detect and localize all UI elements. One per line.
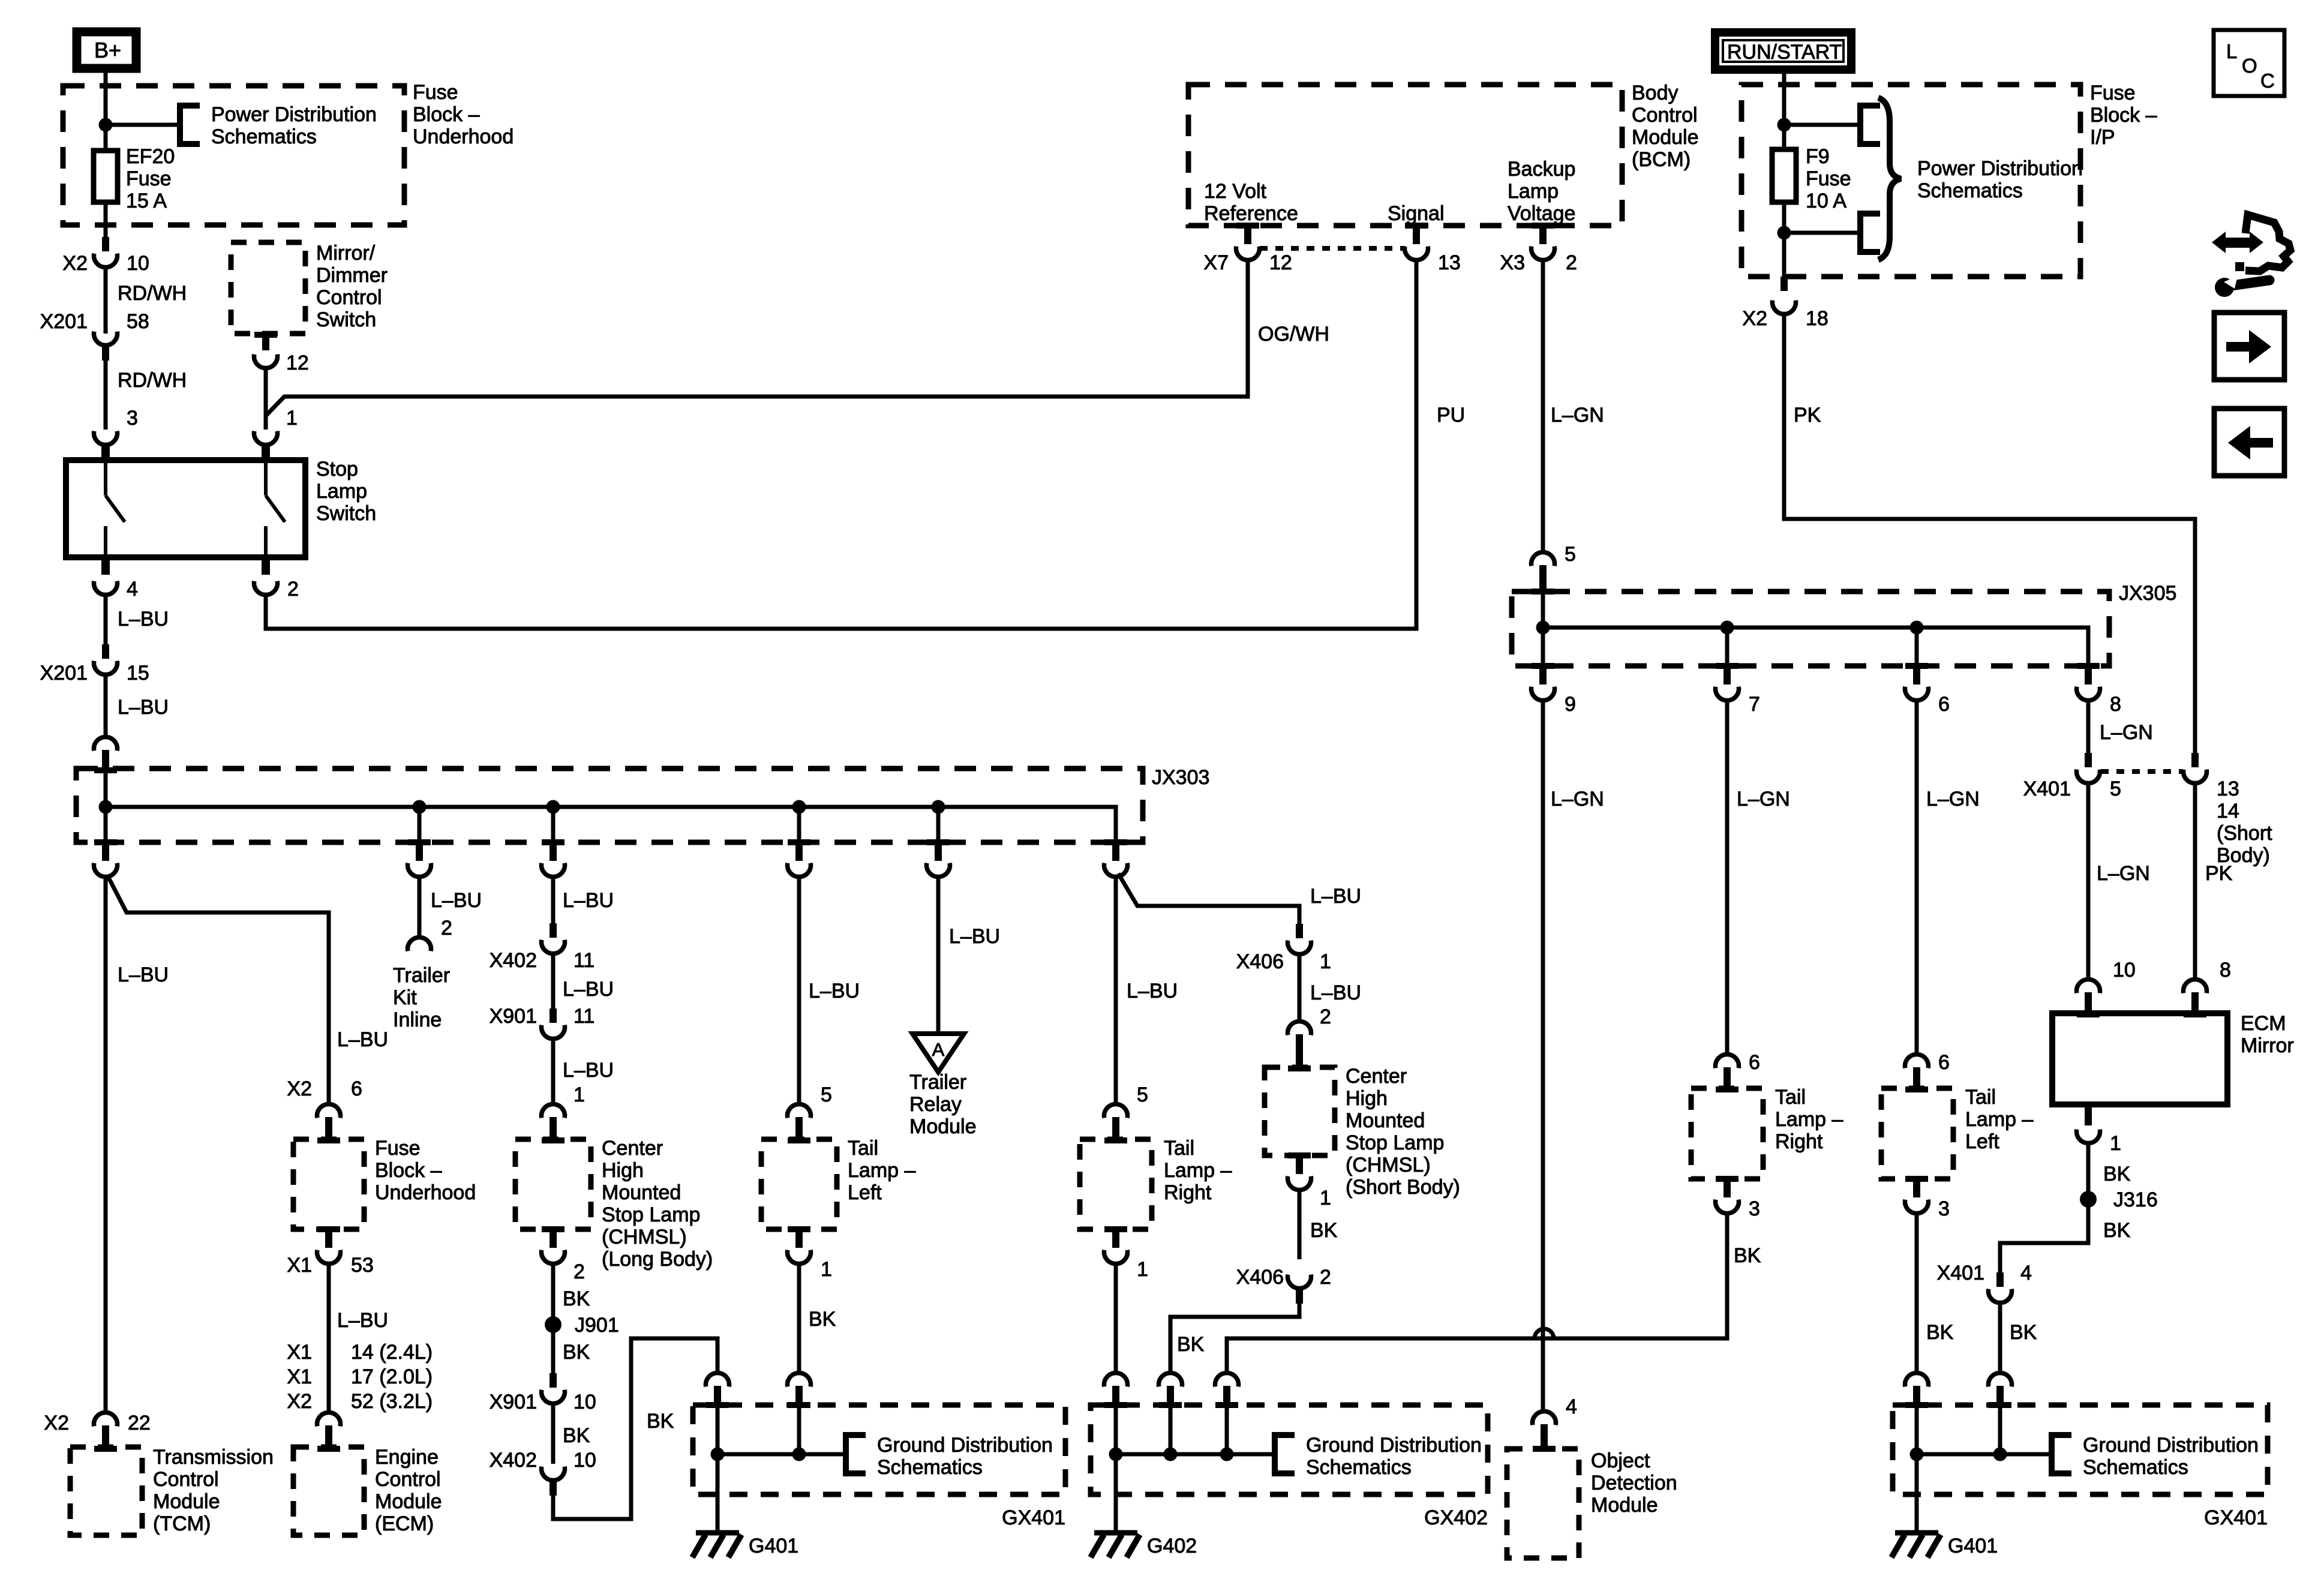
- svg-text:Ground Distribution: Ground Distribution: [2083, 1434, 2259, 1457]
- svg-text:JX303: JX303: [1152, 766, 1209, 789]
- svg-text:53: 53: [351, 1254, 374, 1277]
- connector pin 1 at ECM mirror bottom: [2085, 1104, 2092, 1125]
- connector pin 1 at tail lamp right: [1104, 1226, 1127, 1232]
- svg-text:Fuse: Fuse: [413, 81, 458, 104]
- svg-text:L–BU: L–BU: [949, 925, 1000, 948]
- svg-text:1: 1: [574, 1083, 585, 1106]
- GX401 right entry connector (tail lamp left): [1905, 1373, 1929, 1386]
- connector X7 dashed link: [1260, 246, 1405, 251]
- junction block JX303 dashed box: [76, 769, 1143, 842]
- stop lamp switch pin 2 stub: [262, 557, 270, 575]
- svg-text:RUN/START: RUN/START: [1727, 41, 1842, 64]
- svg-text:L–BU: L–BU: [118, 696, 169, 719]
- svg-text:Detection: Detection: [1591, 1472, 1677, 1494]
- connector pin 1 at CHMSL short body: [1288, 1152, 1311, 1158]
- wire L-BU to tail lamp left pin 5: [797, 876, 801, 1103]
- svg-text:1: 1: [2110, 1132, 2121, 1155]
- svg-text:L–GN: L–GN: [2100, 721, 2153, 744]
- fuse F9 10A: [1772, 149, 1796, 202]
- svg-text:14 (2.4L): 14 (2.4L): [351, 1341, 433, 1364]
- LOC legend box: [2214, 30, 2284, 96]
- wire L-BU to CHMSL long body pin 1: [551, 1038, 556, 1103]
- wire RUN/START to fuse F9: [1782, 73, 1786, 149]
- node on JX303 bus at tail lamp left drop: [792, 800, 806, 814]
- svg-text:BK: BK: [563, 1424, 590, 1447]
- svg-text:L–GN: L–GN: [1926, 788, 1980, 810]
- connector pin 1 at tail lamp left: [788, 1226, 810, 1232]
- wire RD/WH to stop lamp switch pin 3: [104, 360, 108, 430]
- svg-text:17 (2.0L): 17 (2.0L): [351, 1365, 433, 1388]
- svg-text:BK: BK: [1177, 1333, 1205, 1356]
- svg-text:5: 5: [1565, 543, 1576, 566]
- svg-text:(CHMSL): (CHMSL): [1346, 1154, 1431, 1176]
- transmission control module (TCM) dashed box: [70, 1447, 142, 1535]
- svg-text:GX401: GX401: [2204, 1506, 2268, 1529]
- svg-text:52 (3.2L): 52 (3.2L): [351, 1390, 433, 1413]
- wire L-BU to trailer relay module: [936, 876, 941, 1034]
- svg-text:Backup: Backup: [1508, 158, 1575, 181]
- JX305 internal bus wire: [1543, 593, 2088, 666]
- svg-text:13: 13: [2217, 778, 2239, 800]
- svg-text:2: 2: [574, 1260, 585, 1283]
- JX303 internal bus wire: [106, 770, 1116, 842]
- junction block JX303 entry connector: [94, 737, 118, 751]
- svg-text:Left: Left: [1965, 1130, 1999, 1153]
- wire L-GN from JX305 pin 8 to X401: [2086, 700, 2091, 753]
- svg-text:High: High: [602, 1159, 644, 1182]
- svg-text:L–BU: L–BU: [337, 1028, 388, 1051]
- stop lamp switch left contact blade: [106, 463, 125, 557]
- svg-text:9: 9: [1565, 693, 1576, 716]
- svg-text:G401: G401: [749, 1535, 798, 1557]
- svg-text:C: C: [2260, 70, 2275, 92]
- connector pin 2 at CHMSL long body: [542, 1226, 565, 1232]
- svg-text:PK: PK: [2205, 862, 2233, 885]
- connector X402 pin 11: [550, 923, 557, 938]
- svg-text:Module: Module: [1632, 126, 1699, 149]
- svg-text:Mounted: Mounted: [602, 1181, 681, 1204]
- svg-text:3: 3: [127, 407, 138, 430]
- svg-text:5: 5: [2110, 778, 2121, 800]
- wire RD/WH: [104, 266, 108, 334]
- svg-text:BK: BK: [1926, 1321, 1954, 1344]
- svg-text:Stop: Stop: [316, 458, 358, 481]
- continuation symbol bottom (power distribution): [1860, 214, 1880, 252]
- svg-text:12: 12: [286, 352, 309, 374]
- svg-text:X2: X2: [62, 252, 88, 275]
- svg-text:Object: Object: [1591, 1449, 1650, 1472]
- svg-text:L–BU: L–BU: [431, 889, 482, 912]
- svg-text:Center: Center: [1346, 1065, 1407, 1088]
- svg-text:Signal: Signal: [1388, 202, 1445, 225]
- svg-text:G401: G401: [1948, 1535, 1998, 1557]
- ground G401 (left): [716, 1454, 720, 1532]
- svg-text:10: 10: [2113, 959, 2136, 981]
- svg-text:Engine: Engine: [375, 1446, 439, 1469]
- wire L-GN from X401-5 to ECM mirror pin 10: [2086, 783, 2091, 978]
- GX401 right entry connector (X401-4): [1989, 1373, 2012, 1386]
- wire L-BU to TCM (left branch): [104, 876, 108, 1412]
- svg-text:8: 8: [2110, 693, 2121, 716]
- service icon double-headed arrow: [2223, 238, 2253, 248]
- connector X2 pin 10: [102, 237, 109, 251]
- svg-text:Kit: Kit: [393, 986, 417, 1009]
- connector pin 4: [94, 581, 118, 595]
- svg-text:X3: X3: [1500, 251, 1525, 274]
- svg-text:Lamp: Lamp: [316, 480, 367, 503]
- svg-text:2: 2: [1566, 251, 1577, 274]
- svg-text:(BCM): (BCM): [1632, 148, 1691, 171]
- GX402 entry connector (CHMSL short): [1159, 1373, 1182, 1386]
- svg-text:2: 2: [441, 917, 452, 939]
- svg-text:Schematics: Schematics: [211, 125, 317, 148]
- svg-text:X7: X7: [1203, 251, 1229, 274]
- svg-text:Lamp –: Lamp –: [1164, 1159, 1232, 1182]
- svg-text:L–BU: L–BU: [1310, 981, 1361, 1004]
- svg-text:1: 1: [1320, 950, 1331, 973]
- wire L-BU to X402: [551, 876, 556, 923]
- continuation symbol ground distribution schematics (GX402): [1275, 1435, 1295, 1473]
- power symbol RUN/START: [1715, 32, 1851, 70]
- svg-text:7: 7: [1749, 693, 1760, 716]
- stop lamp switch right contact blade: [266, 463, 285, 557]
- svg-text:X406: X406: [1236, 1266, 1284, 1289]
- GX402 entry connector (right BK wire): [1215, 1373, 1239, 1386]
- svg-text:BK: BK: [2103, 1163, 2131, 1185]
- svg-text:Control: Control: [316, 286, 382, 309]
- connector pin 3 at tail lamp left (right side): [1905, 1176, 1928, 1182]
- svg-text:BK: BK: [2010, 1321, 2037, 1344]
- svg-text:X402: X402: [490, 1449, 537, 1472]
- forward arrow box: [2214, 313, 2284, 380]
- wire BK to ground distribution GX401: [553, 1338, 717, 1519]
- svg-text:8: 8: [2220, 959, 2231, 981]
- svg-text:Inline: Inline: [393, 1008, 442, 1031]
- trailer kit inline connector (pin 2): [407, 937, 431, 951]
- svg-text:Module: Module: [1591, 1494, 1658, 1517]
- wire L-BU to junction block JX303: [104, 674, 108, 736]
- tail lamp - left dashed box: [761, 1139, 837, 1229]
- svg-text:BK: BK: [809, 1308, 836, 1331]
- wire BK to X402: [551, 1403, 556, 1464]
- svg-text:L–BU: L–BU: [1310, 885, 1361, 908]
- svg-text:X901: X901: [490, 1391, 537, 1413]
- svg-text:Mirror/: Mirror/: [316, 242, 376, 265]
- wire from tail lamp right pin 1 to GX402: [1114, 1263, 1118, 1371]
- junction block JX305 dashed box: [1512, 592, 2109, 666]
- svg-text:Module: Module: [153, 1490, 220, 1513]
- node GX401 bus right: [792, 1448, 806, 1461]
- svg-text:L–BU: L–BU: [563, 1059, 614, 1082]
- GX401 entry connector (left): [706, 1373, 729, 1386]
- wire L-BU to X901: [551, 953, 556, 1008]
- svg-text:L–BU: L–BU: [809, 980, 860, 1002]
- wire L-BU branch to fuse block underhood (middle): [108, 876, 329, 1103]
- svg-text:Trailer: Trailer: [909, 1071, 966, 1094]
- svg-text:Tail: Tail: [1775, 1086, 1806, 1109]
- ground distribution GX401 (right) dashed box: [1893, 1405, 2268, 1494]
- node GX402 bus at G402: [1109, 1448, 1123, 1461]
- svg-text:X201: X201: [40, 310, 88, 333]
- svg-text:Switch: Switch: [316, 502, 376, 525]
- node on JX303 bus at trailer relay drop: [932, 800, 945, 814]
- GX401 right bus wire: [1917, 1452, 2052, 1457]
- wire L-GN from JX305 pin 9 to object detection module: [1541, 700, 1545, 1410]
- svg-text:BK: BK: [563, 1341, 590, 1364]
- svg-text:J901: J901: [575, 1314, 619, 1337]
- svg-text:O: O: [2242, 55, 2257, 77]
- connector X2 pin 18: [1780, 277, 1788, 291]
- junction node at F9 bottom: [1777, 226, 1791, 240]
- connector X201 pin 58: [94, 332, 118, 346]
- wire EF20 to connector X2-10: [104, 202, 108, 239]
- wire BK from tail lamp left to GX401: [797, 1263, 801, 1371]
- connector X401 pin 5: [2085, 753, 2092, 767]
- splice J901: [545, 1316, 562, 1333]
- connector pin 2: [254, 581, 278, 595]
- fuse block - underhood (middle) dashed box: [293, 1139, 364, 1229]
- wire L-BU to ECM: [327, 1263, 331, 1410]
- connector X401 pin 4: [1996, 1272, 2004, 1287]
- node on JX303 bus at left chain: [99, 800, 113, 814]
- svg-text:Power Distribution: Power Distribution: [211, 103, 377, 126]
- wire L-BU to CHMSL short pin 2: [1298, 954, 1302, 1020]
- svg-text:11: 11: [574, 1005, 594, 1028]
- svg-text:3: 3: [1749, 1197, 1760, 1220]
- svg-text:L: L: [2226, 40, 2237, 62]
- trailer relay module triangle A: [912, 1034, 964, 1072]
- svg-text:Trailer: Trailer: [393, 964, 450, 987]
- svg-text:12: 12: [1269, 251, 1292, 274]
- JX303 exit connector at CHMSL long: [542, 839, 565, 845]
- connector X201 pin 15: [102, 644, 109, 659]
- svg-text:L–BU: L–BU: [563, 889, 614, 912]
- svg-text:4: 4: [2020, 1262, 2032, 1284]
- node on JX305 bus at pin 6: [1910, 621, 1924, 635]
- svg-text:F9: F9: [1806, 145, 1830, 168]
- BCM connector X7 pin 12: [1236, 223, 1259, 229]
- svg-text:2: 2: [1320, 1266, 1331, 1289]
- wire from mirror/dimmer pin 12 to stop lamp switch pin 1: [266, 368, 284, 430]
- svg-text:1: 1: [286, 407, 298, 430]
- connector pin 3 at tail lamp right (right side): [1716, 1176, 1739, 1182]
- service icon wrench: [2232, 280, 2269, 286]
- svg-text:ECM: ECM: [2241, 1012, 2286, 1035]
- svg-text:6: 6: [1938, 693, 1950, 716]
- continuation symbol ground distribution schematics (left): [846, 1435, 866, 1473]
- svg-text:L–GN: L–GN: [1551, 404, 1604, 427]
- svg-text:Right: Right: [1775, 1130, 1823, 1153]
- svg-text:L–GN: L–GN: [1551, 788, 1604, 810]
- wire BK from J901: [551, 1325, 556, 1373]
- ground distribution GX402 dashed box: [1091, 1405, 1488, 1494]
- svg-text:Schematics: Schematics: [1306, 1456, 1412, 1479]
- wire PU from stop lamp switch pin 2 to BCM signal pin 13: [266, 260, 1416, 629]
- svg-text:5: 5: [1137, 1083, 1148, 1106]
- JX303 exit connector at tail lamp right: [1104, 839, 1127, 845]
- svg-text:Control: Control: [1632, 104, 1698, 127]
- node on JX303 bus at CHMSL long drop: [547, 800, 560, 814]
- JX305 exit connector pin 8: [2077, 663, 2100, 669]
- svg-text:BK: BK: [563, 1287, 590, 1310]
- svg-text:Schematics: Schematics: [1917, 179, 2023, 202]
- svg-text:Control: Control: [375, 1468, 441, 1491]
- svg-text:X1: X1: [287, 1341, 312, 1364]
- connector X2 pin 52 at ECM: [317, 1412, 341, 1426]
- node on JX303 bus at trailer kit drop: [413, 800, 427, 814]
- svg-text:Voltage: Voltage: [1508, 202, 1575, 225]
- JX305 exit connector pin 6: [1905, 663, 1928, 669]
- wire L-BU to trailer kit inline: [418, 876, 422, 937]
- pin 12 of mirror/dimmer control switch: [254, 332, 277, 338]
- svg-text:High: High: [1346, 1087, 1388, 1110]
- svg-text:X402: X402: [490, 949, 537, 972]
- engine control module (ECM) dashed box: [293, 1447, 364, 1535]
- svg-text:Relay: Relay: [909, 1093, 962, 1116]
- svg-text:Lamp –: Lamp –: [1775, 1108, 1843, 1131]
- svg-text:18: 18: [1806, 307, 1828, 330]
- svg-text:Fuse: Fuse: [375, 1137, 421, 1160]
- JX303 exit connector at left chain: [104, 807, 108, 842]
- svg-text:Body: Body: [1632, 82, 1679, 104]
- svg-text:Tail: Tail: [1164, 1137, 1194, 1160]
- wire L-GN from JX305 pin 7 to tail lamp right: [1725, 700, 1730, 1053]
- svg-text:X2: X2: [44, 1412, 69, 1434]
- wire F9 bottom: [1782, 202, 1786, 277]
- svg-text:Control: Control: [153, 1468, 219, 1491]
- GX402 bus wire: [1116, 1452, 1275, 1457]
- svg-text:PK: PK: [1794, 404, 1821, 427]
- svg-text:J316: J316: [2113, 1188, 2158, 1211]
- svg-text:A: A: [932, 1039, 945, 1060]
- tail lamp - right (right side) dashed box: [1691, 1088, 1763, 1179]
- svg-text:Lamp –: Lamp –: [1965, 1108, 2033, 1131]
- service icon vehicle outline: [2245, 215, 2290, 271]
- node GX402 bus mid: [1164, 1448, 1178, 1461]
- svg-text:I/P: I/P: [2090, 126, 2115, 149]
- continuation symbol top (power distribution): [1860, 106, 1880, 144]
- svg-text:X401: X401: [1937, 1262, 1984, 1284]
- tail lamp - left (right side) dashed box: [1881, 1088, 1953, 1179]
- curly brace for power distribution schematics: [1878, 98, 1901, 260]
- svg-text:Block –: Block –: [375, 1159, 442, 1182]
- svg-text:L–BU: L–BU: [1127, 980, 1178, 1002]
- svg-text:Stop Lamp: Stop Lamp: [602, 1203, 700, 1226]
- svg-text:Ground Distribution: Ground Distribution: [1306, 1434, 1482, 1457]
- svg-text:RD/WH: RD/WH: [118, 369, 187, 392]
- svg-text:(CHMSL): (CHMSL): [602, 1226, 687, 1248]
- wire BK from X406 to ground distribution GX402: [1170, 1304, 1299, 1371]
- svg-text:5: 5: [821, 1083, 832, 1106]
- svg-text:Left: Left: [848, 1181, 882, 1204]
- svg-text:Block –: Block –: [2090, 104, 2157, 127]
- center high mounted stop lamp (CHMSL short body) dashed box: [1265, 1067, 1335, 1155]
- svg-text:10: 10: [127, 252, 149, 275]
- svg-text:10: 10: [574, 1391, 596, 1413]
- svg-text:JX305: JX305: [2119, 582, 2176, 605]
- center high mounted stop lamp (CHMSL long body) dashed box: [515, 1139, 591, 1229]
- stop lamp switch box: [66, 460, 305, 557]
- svg-text:L–BU: L–BU: [337, 1309, 388, 1332]
- svg-text:X401: X401: [2023, 778, 2071, 800]
- svg-text:GX401: GX401: [1002, 1506, 1065, 1529]
- svg-text:Fuse: Fuse: [1806, 167, 1851, 190]
- GX401 bus wire: [717, 1452, 846, 1457]
- svg-text:BK: BK: [1310, 1219, 1338, 1242]
- connector X401 dashed link: [2101, 769, 2182, 774]
- svg-text:X1: X1: [287, 1365, 312, 1388]
- ground G401 (right): [1915, 1454, 1919, 1532]
- svg-text:RD/WH: RD/WH: [118, 282, 187, 305]
- svg-text:Mounted: Mounted: [1346, 1109, 1425, 1132]
- svg-text:Dimmer: Dimmer: [316, 264, 388, 287]
- node GX401 right bus left: [1910, 1448, 1924, 1461]
- svg-text:13: 13: [1438, 251, 1461, 274]
- connector pin 1 at CHMSL long body: [542, 1104, 565, 1118]
- svg-text:1: 1: [1137, 1258, 1148, 1281]
- svg-text:X406: X406: [1236, 950, 1284, 973]
- svg-text:Lamp –: Lamp –: [848, 1159, 915, 1182]
- object detection module dashed box: [1507, 1449, 1579, 1558]
- svg-text:Schematics: Schematics: [877, 1456, 983, 1479]
- svg-text:6: 6: [1938, 1051, 1950, 1074]
- wire BK from J316 to X401 pin 4: [2000, 1199, 2088, 1272]
- svg-text:3: 3: [1938, 1197, 1950, 1220]
- svg-text:Tail: Tail: [1965, 1086, 1996, 1109]
- svg-text:Lamp: Lamp: [1508, 180, 1559, 203]
- svg-text:Underhood: Underhood: [375, 1181, 476, 1204]
- wire PK from X2-18 to ECM mirror circuit: [1784, 314, 2195, 756]
- svg-text:6: 6: [351, 1077, 362, 1100]
- JX303 exit connector at trailer kit: [408, 839, 431, 845]
- node GX402 bus right: [1220, 1448, 1234, 1461]
- svg-text:10: 10: [574, 1449, 596, 1472]
- wire B+ to fuse EF20: [104, 73, 108, 151]
- wire BK from tail lamp right to GX402: [1227, 1213, 1727, 1371]
- svg-text:14: 14: [2217, 800, 2239, 822]
- node on JX305 bus at pin 7: [1721, 621, 1734, 635]
- svg-text:Module: Module: [909, 1115, 977, 1138]
- tail lamp - right dashed box: [1080, 1139, 1152, 1229]
- svg-text:PU: PU: [1437, 404, 1465, 427]
- svg-text:Module: Module: [375, 1490, 442, 1513]
- wire OG/WH from BCM pin 12 to stop lamp switch pin 1: [266, 260, 1248, 416]
- node GX401 bus left: [711, 1448, 725, 1461]
- svg-text:Fuse: Fuse: [2090, 82, 2136, 104]
- connector pin 2 at CHMSL short body: [1288, 1021, 1311, 1035]
- fuse block - I/P dashed box: [1742, 85, 2080, 277]
- svg-text:L–GN: L–GN: [1737, 788, 1790, 810]
- svg-text:(ECM): (ECM): [375, 1512, 434, 1535]
- wire L-BU to tail lamp right and CHMSL short branch: [1116, 873, 1299, 1103]
- svg-text:11: 11: [574, 949, 594, 972]
- svg-text:X2: X2: [287, 1390, 312, 1413]
- svg-text:L–BU: L–BU: [118, 963, 169, 986]
- svg-text:Transmission: Transmission: [153, 1446, 274, 1469]
- ground G402: [1114, 1454, 1118, 1532]
- svg-text:(Short: (Short: [2217, 822, 2272, 845]
- svg-text:2: 2: [287, 578, 299, 601]
- junction node at F9 top: [1777, 118, 1791, 132]
- svg-text:4: 4: [1566, 1395, 1577, 1418]
- BCM connector pin 13: [1405, 223, 1428, 229]
- svg-text:L–GN: L–GN: [2097, 862, 2150, 885]
- svg-text:Stop Lamp: Stop Lamp: [1346, 1131, 1444, 1154]
- svg-text:(Long Body): (Long Body): [602, 1248, 713, 1271]
- svg-text:OG/WH: OG/WH: [1258, 323, 1329, 346]
- svg-text:Fuse: Fuse: [126, 167, 172, 190]
- svg-text:Mirror: Mirror: [2241, 1034, 2294, 1057]
